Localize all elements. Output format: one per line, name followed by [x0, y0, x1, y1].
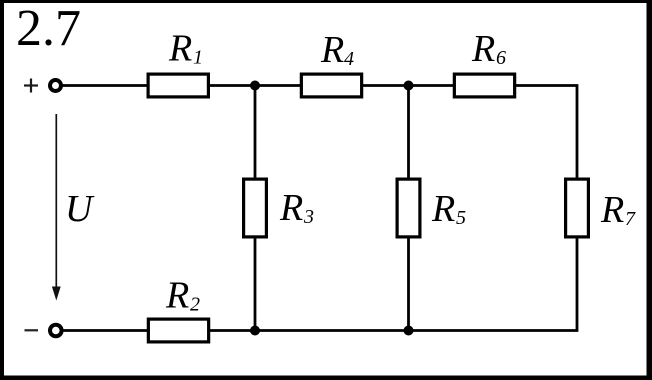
plus terminal polarity mark — [24, 79, 38, 93]
svg-text:2: 2 — [190, 294, 200, 316]
svg-text:R: R — [320, 29, 344, 71]
svg-text:R: R — [168, 28, 192, 70]
svg-text:3: 3 — [303, 206, 314, 228]
wire branch2 bottom: R5 to bottom rail — [407, 238, 410, 331]
svg-text:R: R — [279, 187, 303, 229]
node B (top junction 2) — [404, 81, 414, 91]
resistor R7 — [566, 179, 589, 237]
wire branch2 top: node B down to R5 — [407, 86, 410, 179]
wire R1 to R4 — [210, 84, 301, 87]
wire branch3 bottom: R7 down to bottom rail corner — [210, 238, 578, 331]
terminal circle top — [50, 80, 61, 91]
wire bottom-left: terminal to R2 — [61, 329, 148, 332]
resistor R5 — [397, 179, 420, 237]
wire R4 to R6 — [363, 84, 454, 87]
minus terminal polarity mark — [25, 329, 39, 331]
svg-text:R: R — [600, 189, 624, 231]
svg-text:1: 1 — [193, 47, 203, 69]
wire R6 to right corner and down to R7 — [516, 86, 578, 179]
svg-text:R: R — [431, 188, 455, 230]
svg-text:2.7: 2.7 — [16, 0, 81, 57]
resistor R3 — [244, 179, 267, 237]
svg-text:6: 6 — [496, 47, 506, 69]
svg-text:R: R — [165, 275, 189, 317]
wire top-left: terminal to R1 — [61, 84, 147, 87]
resistor R6 — [454, 74, 514, 97]
wire branch1 top: node A down to R3 — [254, 86, 257, 179]
node A (top junction 1) — [250, 81, 260, 91]
node C (bottom junction 1) — [250, 326, 260, 336]
svg-text:5: 5 — [456, 207, 466, 229]
resistor R4 — [301, 74, 361, 97]
svg-text:U: U — [65, 188, 95, 230]
svg-text:4: 4 — [344, 48, 354, 70]
svg-text:R: R — [471, 28, 495, 70]
wire branch1 bottom: R3 to bottom rail — [254, 238, 257, 331]
resistor R2 — [148, 319, 208, 342]
voltage arrow U — [52, 114, 61, 301]
terminal circle bottom — [50, 325, 62, 337]
node D (bottom junction 2) — [404, 326, 414, 336]
svg-text:7: 7 — [625, 208, 636, 230]
resistor R1 — [148, 74, 208, 97]
